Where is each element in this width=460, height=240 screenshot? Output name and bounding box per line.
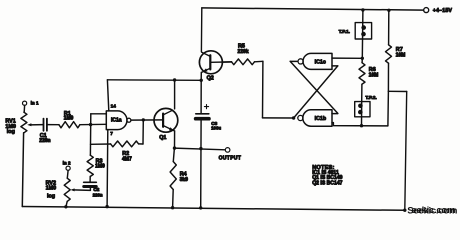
wire R1 to IC1a input [80, 123, 106, 125]
svg-text:1M0: 1M0 [95, 164, 105, 170]
svg-text:in 1: in 1 [31, 100, 39, 105]
svg-text:IC1b: IC1b [315, 116, 327, 122]
wire supply line to flip-flop side [107, 79, 201, 82]
node pin7 to 0V rail [105, 205, 108, 208]
wire positive supply rail [202, 8, 424, 10]
resistor R6 [361, 58, 363, 62]
svg-text:3k9: 3k9 [180, 177, 189, 183]
node supply/R7 junction [387, 9, 390, 12]
svg-text:10M: 10M [369, 72, 379, 78]
test point T.P.1 [355, 23, 371, 39]
svg-text:7: 7 [110, 131, 113, 136]
input terminal in 2 [66, 166, 70, 170]
wire R5 to flip-flop [262, 61, 264, 118]
RV2 wiper arrow [70, 188, 74, 191]
RV1 wiper arrow [30, 124, 43, 126]
svg-text:10M: 10M [396, 53, 406, 59]
svg-text:220n: 220n [93, 192, 103, 197]
svg-text:IC1c: IC1c [315, 60, 326, 66]
wire R3 to C2 [89, 177, 91, 183]
wire C2 to RV2 wiper [89, 187, 91, 191]
svg-text:+4–15V: +4–15V [433, 8, 453, 14]
wire Q2 base to R5 [222, 61, 231, 63]
node R4/0V junction [171, 206, 174, 209]
wire in2 to RV2 [66, 170, 69, 178]
svg-text:Q2 IS BC147: Q2 IS BC147 [312, 181, 342, 187]
resistor R4 [173, 148, 174, 161]
wire Q2 collector to supply [200, 8, 202, 52]
potentiometer RV1 [21, 112, 27, 133]
svg-text:220n: 220n [39, 138, 50, 144]
resistor R7 [388, 10, 390, 45]
pin 14 of IC1a [107, 80, 108, 111]
wire R7 node down to input line [387, 91, 390, 126]
node R1/input junction [89, 123, 92, 126]
output terminal [225, 148, 230, 153]
wire C3 to output line and 0V [200, 120, 202, 208]
svg-text:in 2: in 2 [63, 160, 71, 165]
node Q1 collector junction [173, 78, 176, 81]
pin 7 of IC1a [106, 130, 109, 207]
resistor R3 [87, 155, 93, 176]
capacitor C3 [200, 80, 202, 113]
svg-text:log: log [47, 194, 55, 200]
svg-text:1M0: 1M0 [46, 186, 57, 192]
transistor Q2 [199, 51, 222, 74]
svg-text:Seekic.com: Seekic.com [407, 206, 457, 217]
node TP2/input line junction [360, 124, 363, 127]
input terminal in 1 [23, 101, 27, 105]
wire C1 to R1 [47, 124, 59, 126]
wire in1 to RV1 [23, 105, 25, 112]
node C3/output junction [199, 147, 202, 150]
svg-text:T.P.2.: T.P.2. [365, 95, 376, 100]
svg-text:Q1: Q1 [159, 135, 166, 141]
resistor R1 [59, 122, 80, 128]
svg-text:IC1a: IC1a [111, 118, 122, 124]
capacitor C1 [43, 119, 45, 131]
transistor Q1 [154, 108, 178, 132]
wire IC1c upper input to R6 node [332, 57, 362, 59]
node R5/IC1b output junction [292, 116, 295, 119]
svg-text:220k: 220k [238, 49, 249, 55]
nand gate IC1c [303, 53, 332, 69]
wire left rail RV1 to 0V [22, 133, 23, 207]
node Q2 emitter junction [200, 79, 203, 82]
svg-text:T.P.1.: T.P.1. [339, 29, 350, 34]
wire Q1 emitter [174, 131, 176, 148]
wire IC1b output cross-couple to IC1c input [294, 66, 338, 118]
wire right rail to 0V [405, 92, 407, 211]
svg-text:Q2: Q2 [207, 76, 214, 82]
svg-text:OUTPUT: OUTPUT [219, 155, 242, 161]
wire upper input stub [91, 113, 107, 115]
wire Q2 emitter [200, 72, 202, 80]
resistor R2 [91, 143, 111, 145]
node RV2/0V junction [64, 205, 67, 208]
wire Q1 collector [174, 80, 176, 109]
capacitor C2 [84, 181, 97, 183]
wire IC1c output cross-couple to IC1b input [290, 60, 297, 62]
nand gate IC1a [106, 111, 127, 130]
nand gate IC1b [303, 110, 332, 126]
wire RV2 to 0V [66, 201, 67, 206]
wire R7 node to right rail [388, 90, 406, 92]
svg-text:log: log [7, 129, 15, 135]
svg-text:14: 14 [111, 104, 117, 109]
supply terminal +4-15V [424, 8, 429, 13]
node IC1c input/R6 junction [361, 57, 364, 60]
wire IC1b lower input to R7 node [332, 123, 388, 126]
wire feedback vertical [142, 120, 144, 144]
node output-line/0V junction [199, 206, 202, 209]
node Q1 emitter output junction [173, 146, 176, 149]
node supply/TP1 junction [361, 8, 364, 11]
resistor R5 [211, 61, 232, 63]
wire input link vertical [89, 114, 91, 155]
wire IC1a output to Q1 base [131, 119, 163, 121]
wire 0V rail [22, 207, 405, 211]
node IC1a output junction [142, 118, 145, 121]
svg-text:1M0: 1M0 [64, 116, 74, 122]
potentiometer RV2 [64, 178, 70, 201]
svg-text:4M7: 4M7 [122, 157, 132, 163]
node right rail/0V junction [403, 209, 406, 212]
svg-text:100u: 100u [211, 126, 221, 131]
test point T.P.2 [355, 102, 370, 117]
wire output line [175, 148, 226, 150]
